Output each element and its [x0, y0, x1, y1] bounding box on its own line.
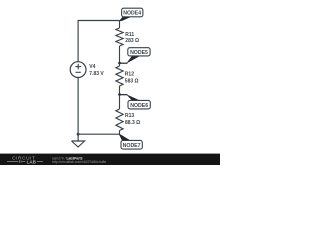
node NODE5	[128, 48, 150, 56]
footer logo LAB line	[7, 161, 18, 163]
node A junction dot	[118, 62, 121, 65]
node NODE4	[122, 8, 143, 17]
flag tail NODE7	[119, 134, 130, 141]
footer bar	[0, 154, 220, 165]
svg-text:V4: V4	[89, 64, 95, 70]
V4 plus sign	[75, 64, 81, 73]
svg-text:NODE7: NODE7	[123, 143, 141, 149]
wire chain top lead	[119, 21, 121, 29]
node B junction dot	[118, 93, 121, 96]
svg-text:LAB: LAB	[27, 159, 37, 164]
resistor R13	[116, 109, 123, 131]
wire R13 bottom lead	[119, 131, 121, 135]
svg-text:7.83 V: 7.83 V	[89, 71, 104, 77]
ground	[77, 134, 79, 141]
wire bottom rail	[78, 133, 119, 135]
svg-text:583 Ω: 583 Ω	[125, 78, 139, 84]
resistor R12	[116, 66, 123, 86]
flag tail NODE4	[119, 17, 131, 21]
resistor R11	[116, 28, 123, 46]
svg-text:R13: R13	[125, 113, 134, 119]
wire R11 to R12	[119, 46, 121, 66]
wire R12 to R13	[119, 86, 121, 109]
svg-text:NODE6: NODE6	[130, 103, 148, 109]
voltage source V4	[70, 62, 86, 78]
flag tail NODE5	[119, 62, 127, 64]
footer logo right line	[37, 161, 43, 163]
node NODE7	[121, 140, 142, 149]
node NODE6	[128, 100, 150, 109]
svg-text:NODE4: NODE4	[123, 11, 141, 17]
node C junction dot (ground rail)	[77, 133, 80, 136]
V4 minus sign	[76, 71, 81, 73]
wire top rail	[78, 21, 119, 62]
svg-text:R12: R12	[125, 72, 134, 78]
wire source bottom to ground rail	[77, 78, 79, 135]
svg-text:283 Ω: 283 Ω	[125, 38, 139, 44]
flag tail NODE6	[119, 94, 127, 96]
svg-text:88.3 Ω: 88.3 Ω	[125, 120, 140, 126]
svg-text:http://circuitlab.com/c6227d86: http://circuitlab.com/c6227d86v4u8e	[52, 160, 106, 164]
svg-text:NODE5: NODE5	[130, 50, 148, 56]
